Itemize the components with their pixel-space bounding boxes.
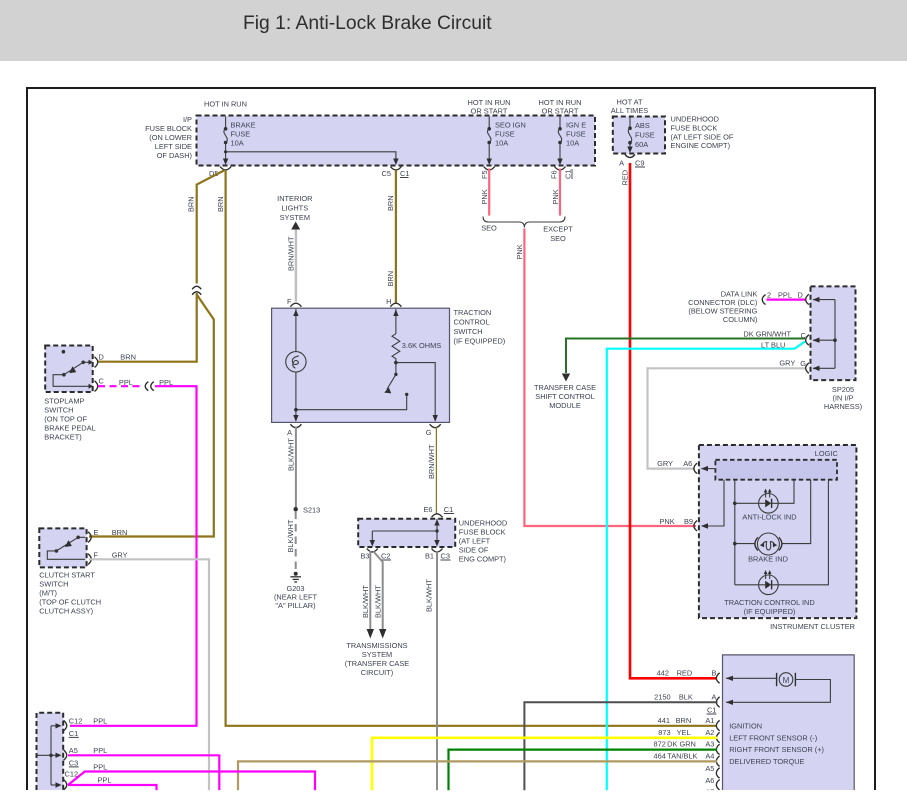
svg-text:PNK: PNK	[515, 244, 524, 259]
traction switch: momentary switch arm	[298, 363, 409, 410]
svg-text:873: 873	[658, 728, 670, 737]
svg-text:GRY: GRY	[657, 459, 673, 468]
wire BRN from D5 down to row 726 and right to EBCM A1	[226, 170, 717, 726]
svg-text:SEO: SEO	[550, 234, 566, 243]
svg-text:SEO: SEO	[481, 224, 497, 233]
svg-text:(ON LOWER: (ON LOWER	[149, 133, 192, 142]
wire PPL dashed from stoplamp C	[98, 385, 141, 387]
svg-text:10A: 10A	[566, 139, 579, 148]
bottom-left connector box (dashed)	[37, 713, 64, 790]
inline connector on PPL wire	[145, 382, 148, 391]
svg-text:GRY: GRY	[779, 359, 795, 368]
svg-text:A: A	[711, 692, 716, 701]
svg-text:TRANSMISSIONS: TRANSMISSIONS	[346, 641, 407, 650]
svg-text:CONTROL: CONTROL	[454, 318, 490, 327]
connector E of clutch switch	[88, 532, 91, 543]
svg-text:C12: C12	[69, 716, 83, 725]
data link connector label	[688, 290, 758, 325]
wire BLK/WHT dashed from S213 to ground	[295, 512, 297, 572]
transfer case shift control module label	[534, 383, 596, 410]
svg-text:COLUMN): COLUMN)	[723, 315, 758, 324]
connector A6 of cluster	[694, 463, 697, 474]
svg-text:M: M	[783, 676, 790, 685]
cluster internal: left feed bus from logic	[733, 480, 737, 585]
svg-text:ALL TIMES: ALL TIMES	[611, 106, 648, 115]
svg-text:I/P: I/P	[183, 115, 192, 124]
svg-text:PPL: PPL	[93, 716, 107, 725]
connector G of traction switch	[430, 424, 441, 428]
wire PNK from F6	[559, 169, 561, 216]
svg-text:E: E	[94, 528, 99, 537]
svg-text:(IF EQUIPPED): (IF EQUIPPED)	[744, 607, 796, 616]
svg-text:C9: C9	[635, 159, 644, 168]
svg-text:"A" PILLAR): "A" PILLAR)	[275, 601, 315, 610]
svg-text:BRN: BRN	[112, 528, 128, 537]
svg-text:LT BLU: LT BLU	[761, 341, 785, 350]
svg-text:BRN: BRN	[386, 195, 395, 211]
svg-text:2150: 2150	[654, 692, 670, 701]
traction switch: node to pin G	[396, 363, 438, 422]
wire YEL to EBCM A2	[372, 738, 717, 791]
connector A7 of EBCM	[716, 791, 719, 802]
connector A5 / C3 (bottom-left box pin 2)	[64, 750, 67, 761]
stoplamp switch label	[44, 397, 95, 442]
svg-text:TAN/BLK: TAN/BLK	[667, 751, 697, 760]
svg-text:DK GRN: DK GRN	[667, 740, 696, 749]
wire BRN branch to clutch start switch E	[89, 295, 214, 537]
svg-text:464: 464	[654, 751, 666, 760]
brace joining SEO / EXCEPT SEO	[483, 217, 565, 228]
node: fuse output junction to C5	[224, 150, 227, 153]
svg-text:(M/T): (M/T)	[39, 589, 57, 598]
svg-text:F: F	[287, 297, 292, 306]
svg-text:BRN: BRN	[386, 271, 395, 287]
svg-text:(TRANSFER CASE: (TRANSFER CASE	[345, 659, 410, 668]
wire PPL from DLC to SP205 D	[767, 299, 806, 301]
indicator lamp inside traction switch	[286, 352, 306, 372]
svg-text:BRN/WHT: BRN/WHT	[427, 444, 436, 479]
connector A1 of EBCM	[716, 720, 719, 731]
connector A3 of EBCM	[716, 744, 719, 755]
svg-text:YEL: YEL	[677, 728, 691, 737]
instrument cluster (dashed box)	[699, 445, 857, 618]
svg-text:B9: B9	[684, 517, 693, 526]
svg-text:441: 441	[658, 716, 670, 725]
connector A2 of EBCM	[716, 732, 719, 743]
cluster internal: A6 arrow from logic	[701, 466, 715, 471]
svg-text:(AT LEFT: (AT LEFT	[459, 537, 491, 546]
connector B9 of cluster	[694, 521, 697, 532]
wire RED from ABS fuse to EBCM B	[630, 163, 717, 678]
interior lights system label	[277, 194, 312, 222]
svg-text:PNK: PNK	[480, 189, 489, 204]
connector D5	[220, 167, 231, 171]
svg-text:C1: C1	[564, 170, 573, 179]
ANTI-LOCK IND lamp (LED)	[735, 480, 794, 513]
svg-text:OR START: OR START	[542, 107, 579, 116]
wire DK GRN to EBCM A3	[449, 750, 718, 791]
connector A / C9	[625, 155, 635, 158]
TRACTION CONTROL IND lamp (LED)	[735, 480, 829, 595]
svg-text:FUSE BLOCK: FUSE BLOCK	[671, 124, 718, 133]
fuse BRAKE FUSE 10A	[223, 117, 256, 166]
svg-text:C1: C1	[707, 706, 716, 715]
wire BRN/WHT from traction G to underhood E6	[435, 427, 437, 515]
clutch switch arm and contacts	[47, 536, 85, 560]
svg-text:PPL: PPL	[93, 763, 107, 772]
underhood mid internals	[370, 519, 440, 547]
svg-text:H: H	[386, 297, 391, 306]
wire BLK/WHT from traction A to S213	[295, 427, 297, 509]
svg-text:PPL: PPL	[93, 746, 107, 755]
connector C5 / C1	[390, 167, 401, 171]
svg-text:(TOP OF CLUTCH: (TOP OF CLUTCH	[39, 598, 101, 607]
wire BRN/WHT to interior lights	[295, 230, 297, 302]
wire PPL pin3 diagonal up right	[68, 772, 315, 792]
svg-text:MODULE: MODULE	[549, 401, 581, 410]
svg-text:BRAKE PEDAL: BRAKE PEDAL	[44, 424, 95, 433]
svg-text:SYSTEM: SYSTEM	[280, 213, 310, 222]
svg-text:OR START: OR START	[471, 107, 508, 116]
connector B of EBCM	[716, 673, 719, 684]
svg-text:A4: A4	[705, 751, 714, 760]
connector C12 (bottom-left box pin 3)	[64, 780, 67, 791]
traction switch: pin F entry arrow and lamp wire	[293, 309, 298, 352]
svg-text:SWITCH: SWITCH	[39, 580, 68, 589]
svg-text:C3: C3	[441, 552, 450, 561]
traction switch: resistor 3.6K OHMS	[392, 309, 441, 363]
svg-text:A: A	[287, 428, 292, 437]
svg-text:C5: C5	[382, 169, 391, 178]
svg-text:BLK/WHT: BLK/WHT	[361, 585, 370, 618]
svg-text:BRN: BRN	[187, 196, 196, 212]
inline connector on BRN wire	[192, 284, 201, 295]
connector A6 of EBCM	[716, 780, 719, 791]
svg-text:G: G	[800, 359, 806, 368]
connector C of stoplamp switch	[95, 381, 98, 392]
svg-text:RED: RED	[621, 170, 630, 186]
fuse IGN E FUSE 10A	[557, 117, 586, 166]
wire PNK from F5	[488, 169, 490, 216]
svg-text:SHIFT CONTROL: SHIFT CONTROL	[535, 392, 594, 401]
svg-text:A1: A1	[705, 716, 714, 725]
svg-text:SIDE OF: SIDE OF	[459, 546, 489, 555]
EBCM internal: pump motor circuit	[726, 673, 830, 705]
svg-text:PPL: PPL	[98, 776, 112, 785]
svg-text:2: 2	[767, 290, 771, 299]
svg-text:G: G	[426, 428, 432, 437]
svg-text:DK GRN/WHT: DK GRN/WHT	[743, 330, 791, 339]
connector F of traction switch	[290, 303, 301, 307]
svg-text:BRN: BRN	[216, 196, 225, 212]
svg-text:3.6K OHMS: 3.6K OHMS	[402, 341, 441, 350]
svg-text:STOPLAMP: STOPLAMP	[44, 397, 84, 406]
connector E6 / C1	[432, 514, 443, 518]
svg-text:LOGIC: LOGIC	[815, 449, 839, 458]
stoplamp switch contact dot	[62, 350, 66, 354]
svg-text:PNK: PNK	[551, 189, 560, 204]
svg-text:LEFT SIDE: LEFT SIDE	[155, 142, 192, 151]
connector B1 / C3	[432, 549, 443, 553]
wire BLK from EBCM A down left	[524, 702, 717, 791]
svg-text:CLUTCH START: CLUTCH START	[39, 571, 95, 580]
arrow to interior lights system	[291, 222, 300, 230]
svg-text:BRACKET): BRACKET)	[44, 433, 81, 442]
SP205 label	[824, 385, 862, 411]
underhood fuse block label	[671, 115, 734, 150]
svg-text:B1: B1	[425, 552, 434, 561]
connector C1 of EBCM	[707, 706, 717, 715]
svg-text:ABS: ABS	[635, 121, 650, 130]
svg-text:TRACTION: TRACTION	[454, 308, 492, 317]
svg-text:C: C	[99, 377, 105, 386]
svg-text:ENG COMPT): ENG COMPT)	[459, 555, 506, 564]
svg-text:E6: E6	[423, 505, 432, 514]
svg-text:INTERIOR: INTERIOR	[277, 194, 312, 203]
stoplamp switch (dashed box)	[45, 346, 92, 393]
svg-text:FUSE: FUSE	[231, 130, 251, 139]
wire BRN branch D5 to stoplamp switch D	[97, 171, 224, 362]
svg-text:A5: A5	[705, 764, 714, 773]
bottom-left box internal bus	[38, 723, 62, 788]
fuse ABS FUSE 60A	[627, 118, 654, 154]
svg-text:BRN: BRN	[676, 716, 692, 725]
wire BLK/WHT (1) B3 to transmissions system	[369, 551, 371, 630]
I/P fuse block label	[145, 115, 192, 160]
svg-text:A: A	[619, 159, 624, 168]
connector A of EBCM	[716, 697, 719, 708]
svg-text:OF DASH): OF DASH)	[157, 151, 192, 160]
svg-text:D: D	[99, 353, 104, 362]
wire GRY from SP205 G to cluster A6	[648, 368, 806, 468]
underhood ABS fuse block (dashed box)	[613, 117, 665, 154]
svg-text:FUSE: FUSE	[635, 131, 655, 140]
logic module (inner dashed box)	[715, 460, 837, 480]
connector D of SP205	[806, 294, 809, 305]
svg-text:S213: S213	[303, 506, 320, 515]
svg-text:FUSE BLOCK: FUSE BLOCK	[459, 528, 506, 537]
svg-text:D: D	[798, 290, 803, 299]
I/P fuse block (dashed box)	[197, 116, 596, 166]
connector 2 of DLC	[762, 295, 765, 305]
label HOT IN RUN OR START (IGN E)	[539, 98, 582, 116]
connector D of stoplamp switch	[95, 357, 98, 368]
connector F5	[484, 167, 495, 171]
header bar	[0, 0, 907, 61]
svg-text:SWITCH: SWITCH	[454, 327, 483, 336]
svg-text:EXCEPT: EXCEPT	[543, 225, 573, 234]
svg-text:LEFT FRONT SENSOR (-): LEFT FRONT SENSOR (-)	[729, 733, 817, 742]
stoplamp switch arm and contacts	[53, 360, 93, 389]
connector F6 / C1	[555, 167, 566, 171]
svg-text:10A: 10A	[231, 139, 244, 148]
svg-text:BLK/WHT: BLK/WHT	[425, 579, 434, 612]
svg-text:C1: C1	[400, 169, 409, 178]
svg-text:CIRCUIT): CIRCUIT)	[361, 668, 393, 677]
connector A of traction switch	[290, 424, 301, 428]
svg-text:CLUTCH ASSY): CLUTCH ASSY)	[39, 607, 93, 616]
svg-text:FUSE: FUSE	[566, 130, 586, 139]
svg-text:BRN: BRN	[120, 353, 136, 362]
svg-text:10A: 10A	[495, 139, 508, 148]
svg-text:B3: B3	[360, 552, 369, 561]
svg-text:BRAKE: BRAKE	[231, 121, 256, 130]
transmissions system label	[345, 641, 410, 677]
svg-text:F5: F5	[480, 170, 489, 179]
traction switch: lamp to pin A with junction	[293, 372, 298, 422]
svg-text:ENGINE COMPT): ENGINE COMPT)	[671, 141, 731, 150]
svg-text:A3: A3	[705, 740, 714, 749]
traction control switch (solid box)	[272, 308, 450, 422]
svg-text:BLK/WHT: BLK/WHT	[374, 585, 383, 618]
wire BLK/WHT from B1 down	[436, 551, 438, 791]
svg-text:HARNESS): HARNESS)	[824, 402, 862, 411]
svg-text:TRANSFER CASE: TRANSFER CASE	[534, 383, 596, 392]
svg-text:ANTI-LOCK IND: ANTI-LOCK IND	[742, 512, 796, 521]
svg-text:INSTRUMENT CLUSTER: INSTRUMENT CLUSTER	[770, 622, 855, 631]
wire PPL solid from connector down to C12 row	[70, 386, 197, 726]
node: resistor output	[394, 361, 398, 365]
svg-text:RIGHT FRONT SENSOR (+): RIGHT FRONT SENSOR (+)	[729, 745, 824, 754]
SP205 internal bus	[813, 297, 837, 371]
svg-text:BLK: BLK	[679, 692, 693, 701]
label HOT AT ALL TIMES	[611, 98, 648, 116]
svg-text:A5: A5	[69, 746, 78, 755]
connector C12 / C1 (bottom-left box pin 1)	[64, 720, 67, 731]
wire PNK from brace to instrument cluster B9	[524, 229, 696, 527]
clutch start switch (dashed box)	[39, 528, 86, 567]
connector A4 of EBCM	[716, 756, 719, 767]
svg-text:(AT LEFT SIDE OF: (AT LEFT SIDE OF	[671, 132, 734, 141]
svg-text:BLK/WHT: BLK/WHT	[286, 438, 295, 471]
svg-text:(ON TOP OF: (ON TOP OF	[44, 415, 87, 424]
svg-text:(IF EQUIPPED): (IF EQUIPPED)	[454, 337, 506, 346]
label HOT IN RUN OR START (SEO IGN)	[468, 98, 511, 116]
splice pack SP205 (dashed box)	[811, 286, 856, 380]
svg-text:RED: RED	[677, 668, 693, 677]
BRAKE IND lamp	[735, 480, 811, 555]
svg-text:GRY: GRY	[112, 551, 128, 560]
wire DK GRN/WHT from SP205 C to transfer case module	[566, 339, 805, 374]
wire TAN/BLK to EBCM A4	[238, 761, 717, 791]
svg-text:442: 442	[657, 668, 669, 677]
svg-text:SWITCH: SWITCH	[44, 406, 73, 415]
wire PPL pin3 straight right	[68, 785, 157, 791]
svg-text:C2: C2	[381, 552, 390, 561]
svg-text:TRACTION CONTROL IND: TRACTION CONTROL IND	[724, 598, 814, 607]
svg-text:UNDERHOOD: UNDERHOOD	[671, 115, 719, 124]
svg-text:F6: F6	[550, 170, 559, 179]
ground G203	[274, 572, 318, 610]
traction control switch label	[454, 308, 506, 346]
wire PPL from A5 pin down right	[68, 755, 219, 791]
underhood fuse block mid label	[459, 519, 507, 564]
connector A5 of EBCM	[716, 768, 719, 779]
svg-text:HOT IN RUN: HOT IN RUN	[204, 100, 247, 109]
svg-text:A6: A6	[683, 459, 692, 468]
svg-text:FUSE: FUSE	[495, 130, 515, 139]
svg-text:A6: A6	[705, 776, 714, 785]
svg-text:F: F	[94, 551, 99, 560]
svg-text:LIGHTS: LIGHTS	[281, 204, 308, 213]
svg-text:60A: 60A	[635, 140, 648, 149]
connector G of SP205	[806, 363, 809, 374]
wire BLK/WHT (2) B3 to transmissions system	[374, 552, 383, 631]
svg-text:BRAKE IND: BRAKE IND	[748, 554, 788, 563]
wire GRY from clutch F down bottom	[89, 559, 209, 791]
svg-text:C1: C1	[444, 505, 453, 514]
svg-text:C1: C1	[69, 729, 78, 738]
svg-text:PNK: PNK	[659, 517, 674, 526]
cluster internal: B9 wire to logic	[701, 480, 724, 529]
svg-text:BRN/WHT: BRN/WHT	[286, 236, 295, 271]
connector H of traction switch	[390, 303, 401, 307]
svg-text:SYSTEM: SYSTEM	[362, 650, 392, 659]
connector B3 / C2	[367, 549, 378, 553]
svg-text:FUSE BLOCK: FUSE BLOCK	[145, 124, 192, 133]
svg-text:C3: C3	[69, 758, 78, 767]
connector C of SP205	[806, 335, 809, 346]
clutch switch label	[39, 571, 101, 616]
svg-text:PPL: PPL	[778, 290, 792, 299]
wire BRN from C5 down to traction control switch H	[395, 170, 397, 303]
svg-text:872: 872	[654, 740, 666, 749]
svg-text:A2: A2	[705, 728, 714, 737]
wire LT BLU from SP205 C down left	[607, 342, 805, 792]
svg-text:SEO IGN: SEO IGN	[495, 121, 526, 130]
arrow to transfer case shift control module	[562, 374, 570, 382]
underhood fuse block mid (dashed box)	[358, 519, 455, 547]
svg-text:B: B	[711, 668, 716, 677]
splice S213	[294, 507, 298, 511]
connector F of clutch switch	[88, 554, 91, 565]
svg-text:UNDERHOOD: UNDERHOOD	[459, 519, 507, 528]
fuse SEO IGN FUSE 10A	[487, 117, 526, 166]
EBCM module box	[723, 655, 855, 790]
svg-text:IGN E: IGN E	[566, 121, 586, 130]
svg-text:BLK/WHT: BLK/WHT	[286, 519, 295, 552]
svg-text:DELIVERED TORQUE: DELIVERED TORQUE	[729, 757, 804, 766]
wire (internal) brake fuse to C5 exit	[226, 152, 396, 160]
svg-text:IGNITION: IGNITION	[729, 721, 762, 730]
